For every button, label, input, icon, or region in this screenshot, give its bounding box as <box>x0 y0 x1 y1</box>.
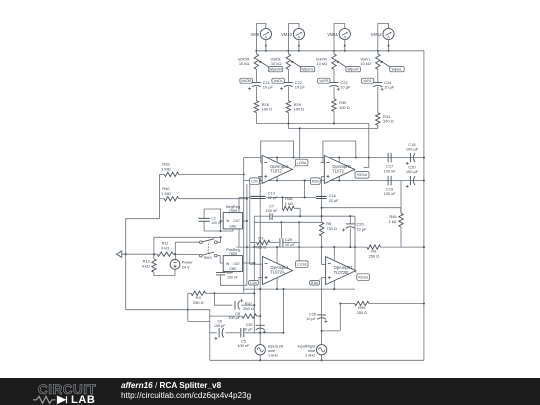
net flag L2In <box>250 178 260 184</box>
svg-text:R3: R3 <box>258 235 263 240</box>
wire L2 inverting input <box>261 161 262 163</box>
junction <box>423 246 425 248</box>
current arrow <box>298 44 301 47</box>
svg-text:C9: C9 <box>227 271 232 275</box>
net flag WiperR <box>346 67 361 72</box>
wire left feedback rail <box>243 158 245 293</box>
svg-text:C2: C2 <box>211 216 215 220</box>
wire V+ line row2 right <box>381 246 424 248</box>
source InputLeft <box>255 345 265 355</box>
junction <box>174 253 176 255</box>
current arrow <box>387 44 390 47</box>
net flag L1In <box>249 281 259 286</box>
wire R39-R40 link <box>158 174 160 198</box>
svg-text:100 µF: 100 µF <box>406 169 419 174</box>
net flag WipeOL <box>300 67 315 72</box>
wire R3-C29 <box>270 242 279 244</box>
svg-text:100 Ω: 100 Ω <box>262 107 273 112</box>
svg-text:A: A <box>387 35 390 40</box>
junction <box>253 262 255 264</box>
svg-text:OUT: OUT <box>233 219 240 223</box>
svg-text:780 Ω: 780 Ω <box>256 245 267 250</box>
potentiometer VolYR <box>332 54 336 69</box>
svg-text:7809: 7809 <box>229 251 238 256</box>
wire pot to cap C24 <box>377 69 379 82</box>
wire R30 down <box>333 111 335 123</box>
wire right net rail upper <box>321 176 323 222</box>
wire L1 non-inverting input <box>258 277 262 279</box>
net flag VolOL <box>272 78 285 83</box>
svg-text:10 kΩ: 10 kΩ <box>360 61 371 66</box>
junction <box>259 332 261 334</box>
wire VM12 to bus <box>388 40 390 51</box>
net flag L1Out <box>296 261 308 267</box>
svg-text:A: A <box>298 35 301 40</box>
wire lineA-lineB link <box>287 124 289 129</box>
junction <box>368 157 370 159</box>
wire R48 left lead <box>281 197 283 208</box>
wire R4 branch down <box>187 293 189 321</box>
switch SW1 <box>200 241 203 244</box>
junction <box>187 309 189 311</box>
net flag R2In <box>311 178 321 184</box>
net flag R1In <box>310 281 320 286</box>
svg-text:10 µF: 10 µF <box>340 85 351 90</box>
svg-text:C30: C30 <box>246 323 253 327</box>
wire R45 right <box>369 303 424 305</box>
svg-text:100 Ω: 100 Ω <box>383 119 394 124</box>
wire R11 to SW1 <box>173 253 199 255</box>
wire V+ line row2 <box>237 246 367 248</box>
junction <box>333 288 335 290</box>
wire PosReg GND stub <box>232 271 234 274</box>
wire right elbow rail <box>339 304 341 331</box>
svg-text:WipeOR: WipeOR <box>269 68 282 72</box>
svg-text:9 kΩ: 9 kΩ <box>142 263 150 268</box>
resistor R4 <box>191 291 206 295</box>
capacitor C26 <box>346 223 355 225</box>
wire mid rail <box>254 221 321 223</box>
svg-text:1 kHz: 1 kHz <box>305 352 315 357</box>
svg-text:22 pF: 22 pF <box>268 195 279 200</box>
op-amp U-L2 OpAmpL2 TL072 <box>262 155 292 183</box>
wire meter loop VM11 <box>334 24 345 55</box>
wire InputRight elbow <box>322 330 341 332</box>
wire C5 right <box>245 332 284 334</box>
wire cap to R31 <box>377 87 379 113</box>
wire R6 down <box>321 236 323 247</box>
wire lower link <box>188 320 210 322</box>
svg-text:10 µF: 10 µF <box>243 328 253 332</box>
svg-text:1 kHz: 1 kHz <box>268 352 278 357</box>
junction <box>276 157 278 159</box>
svg-text:A: A <box>343 35 346 40</box>
wiper arrow WipeOR <box>260 62 268 67</box>
svg-text:GND: GND <box>229 225 237 229</box>
svg-text:R1In: R1In <box>311 281 318 285</box>
junction <box>423 180 425 182</box>
svg-text:VM11: VM11 <box>327 32 338 37</box>
net flag WiperL <box>390 67 405 72</box>
junction <box>321 246 323 248</box>
current arrow <box>265 44 268 47</box>
wire L1 inverting rail <box>249 184 251 264</box>
capacitor C22 <box>284 82 293 84</box>
svg-text:L2Out: L2Out <box>297 161 306 165</box>
resistor R3 <box>257 240 270 244</box>
junction <box>246 198 248 200</box>
svg-text:TL072: TL072 <box>270 169 282 174</box>
junction <box>255 50 257 52</box>
svg-text:1 kΩ: 1 kΩ <box>388 219 396 224</box>
wire bottom bus <box>210 359 424 361</box>
source InputRight <box>316 345 326 355</box>
capacitor C30 <box>256 324 265 326</box>
wire L1 loop left <box>250 242 257 244</box>
svg-text:100 nF: 100 nF <box>384 191 397 196</box>
wire Power to SW1 <box>175 241 199 243</box>
svg-text:750 Ω: 750 Ω <box>326 226 337 231</box>
wire R39 left <box>159 173 164 175</box>
svg-text:100 µF: 100 µF <box>406 147 419 152</box>
net flag R2Out <box>355 172 369 179</box>
capacitor C7 <box>270 213 272 220</box>
wire left input rail <box>259 176 261 344</box>
junction <box>282 332 284 334</box>
resistor R6 <box>319 222 323 236</box>
resistor R28 <box>254 101 258 113</box>
junction <box>321 359 323 361</box>
svg-text:100 nF: 100 nF <box>227 275 238 279</box>
wiper arrow WiperL <box>382 62 390 67</box>
wire InputLeft <box>259 345 261 361</box>
wire VM10 to bus <box>298 40 300 51</box>
resistor R46 <box>399 213 403 227</box>
junction <box>321 207 323 209</box>
svg-text:100 nF: 100 nF <box>237 343 250 348</box>
wire meter loop VM9 <box>256 24 266 55</box>
wire R28 down <box>255 113 257 124</box>
wire Power bottom <box>174 269 176 275</box>
junction <box>287 50 289 52</box>
wire mid supply rail <box>246 184 248 285</box>
wire row1 V+ rail <box>244 157 424 159</box>
svg-text:VM10: VM10 <box>281 32 292 37</box>
wire R46 down <box>400 227 402 247</box>
wire right input rail <box>321 277 323 344</box>
svg-text:L1Out: L1Out <box>297 262 306 266</box>
junction <box>349 215 351 217</box>
svg-text:LAB: LAB <box>71 394 95 405</box>
junction <box>253 304 255 306</box>
junction <box>246 220 248 222</box>
wire to V- rail <box>304 181 306 198</box>
op-amp U-L1 OpAmpL1 TL072A <box>262 257 292 285</box>
svg-text:250 Ω: 250 Ω <box>243 306 254 311</box>
junction <box>281 196 283 198</box>
wire C5 to V- rail <box>283 289 285 333</box>
svg-text:SW1: SW1 <box>204 255 212 260</box>
junction <box>280 221 282 223</box>
resistor R6b <box>367 245 381 249</box>
capacitor C9 <box>216 273 225 275</box>
capacitor C23 <box>330 82 339 84</box>
wire R12 to SW1 line <box>154 236 221 238</box>
svg-text:A: A <box>265 35 268 40</box>
wire R1 non-inverting input <box>322 276 326 278</box>
wire ground to R11 <box>122 253 157 255</box>
junction <box>246 246 248 248</box>
junction <box>253 246 255 248</box>
junction <box>298 246 300 248</box>
junction <box>321 215 323 217</box>
svg-text:22 pF: 22 pF <box>329 198 340 203</box>
net flag VolYR <box>318 78 331 83</box>
svg-text:250 Ω: 250 Ω <box>193 300 204 305</box>
svg-text:R1Out: R1Out <box>358 275 368 279</box>
wire R45 left <box>340 303 354 305</box>
resistor R11 <box>157 252 173 256</box>
capacitor C8 <box>234 301 236 310</box>
svg-text:VolOR: VolOR <box>241 79 251 83</box>
resistor R30 <box>332 99 336 111</box>
wire row2 V- rail <box>244 288 355 290</box>
wire R2 inverting input <box>321 161 325 163</box>
wire line B to L2Out <box>299 128 301 159</box>
wire L2 feedback loop <box>261 141 294 162</box>
wire L1 V+ stub <box>276 247 278 263</box>
ground node triangle <box>116 251 121 257</box>
svg-text:VolYR: VolYR <box>319 79 329 83</box>
wire VM11 to bus <box>344 40 346 51</box>
capacitor C18 <box>409 153 411 162</box>
wire to ground rail <box>126 199 160 310</box>
wire L1 inverting input <box>250 263 263 265</box>
wire R40 left <box>159 198 164 200</box>
resistor R47 <box>242 314 257 318</box>
wire R2 non-inverting input <box>322 175 325 177</box>
wire pot to cap C22 <box>287 69 289 82</box>
net flag WipeOR <box>268 67 283 72</box>
junction <box>299 215 301 217</box>
svg-text:1 MΩ: 1 MΩ <box>161 191 170 196</box>
ammeter VM10 <box>293 28 304 39</box>
wire rail to R46 <box>322 208 401 214</box>
footer title text <box>121 381 251 400</box>
wire C6-C5 <box>225 332 240 334</box>
wire R12 top rail <box>153 237 155 259</box>
wire R12 bottom <box>154 272 175 275</box>
net flag VolOR <box>240 78 253 83</box>
svg-text:24 V: 24 V <box>182 265 190 270</box>
svg-text:10 kΩ: 10 kΩ <box>271 61 282 66</box>
wire left boundary rail <box>238 197 240 247</box>
wire top bus and right rail <box>256 51 424 361</box>
wire to C26 <box>349 216 351 223</box>
voltage source Power 24V <box>170 260 180 270</box>
svg-text:10 µF: 10 µF <box>384 85 395 90</box>
capacitor C20 <box>409 176 411 185</box>
wire PosReg OUT <box>243 262 255 264</box>
wire line B <box>288 127 377 129</box>
capacitor C5 <box>241 328 244 338</box>
svg-text:L2In: L2In <box>251 179 258 183</box>
wire R4 right <box>206 292 255 294</box>
wire InputRight <box>321 345 323 361</box>
junction <box>213 292 215 294</box>
junction <box>377 50 379 52</box>
junction <box>293 157 295 159</box>
net flag VolYL <box>361 78 374 83</box>
CircuitLab logo <box>26 379 136 405</box>
resistor R45 <box>355 301 369 305</box>
ammeter VM9 <box>260 28 271 39</box>
wire L1 V- stub <box>276 278 278 290</box>
junction <box>344 50 346 52</box>
junction <box>349 246 351 248</box>
svg-text:250 Ω: 250 Ω <box>369 253 380 258</box>
wiper arrow WiperR <box>338 62 346 67</box>
svg-text:100 µF: 100 µF <box>214 324 226 328</box>
wire R2 V+ stub <box>338 158 340 163</box>
resistor R29 <box>286 101 290 113</box>
wire line A to R2Out <box>256 124 368 168</box>
wire L2 V- stub <box>276 176 278 180</box>
capacitor C13 <box>251 196 266 198</box>
wire L2 non-inverting input <box>258 175 262 177</box>
junction <box>282 288 284 290</box>
junction <box>387 50 389 52</box>
svg-text:10 µF: 10 µF <box>306 317 316 321</box>
svg-text:WiperL: WiperL <box>392 68 403 72</box>
wire ground bottom rail <box>126 309 210 311</box>
wire C2 loop <box>204 209 220 231</box>
net flag L2Out <box>295 159 308 166</box>
wire pot to cap C21 <box>255 69 257 82</box>
junction <box>219 230 221 232</box>
wire bottom left vertical <box>209 310 211 361</box>
potentiometer VolOR <box>254 54 258 69</box>
wire to NegReg IN <box>221 220 224 222</box>
wire C29 right <box>283 242 299 244</box>
wire R1 inverting input <box>322 264 326 266</box>
svg-text:1 MΩ: 1 MΩ <box>161 166 170 171</box>
svg-text:7909: 7909 <box>229 208 238 213</box>
svg-text:VolOL: VolOL <box>273 79 282 83</box>
wire R1 V- stub <box>333 281 335 290</box>
op-amp U-R2 OpAmpR2 TL072 <box>324 155 354 183</box>
wire R4 left <box>188 292 191 294</box>
junction <box>243 173 245 175</box>
wire C13 to C16 <box>266 196 316 198</box>
svg-text:10 µF: 10 µF <box>357 226 368 231</box>
wire C6 left <box>210 332 217 334</box>
junction <box>298 50 300 52</box>
svg-text:VM9: VM9 <box>250 32 259 37</box>
net flag R1Out <box>357 274 370 281</box>
junction <box>125 253 127 255</box>
wire to R46 <box>400 181 402 214</box>
junction <box>219 220 221 222</box>
svg-text:WipeOL: WipeOL <box>301 68 313 72</box>
junction <box>276 180 278 182</box>
wire R1 feedback left <box>321 247 323 265</box>
svg-text:TL072B: TL072B <box>334 270 349 275</box>
junction <box>220 236 222 238</box>
junction <box>333 122 335 124</box>
capacitor C24 <box>373 82 382 84</box>
wire Power top <box>174 242 176 259</box>
junction <box>338 180 340 182</box>
junction <box>259 288 261 290</box>
junction <box>321 330 323 332</box>
wire C7 to R1 branch <box>272 215 355 217</box>
svg-text:C28: C28 <box>309 312 316 316</box>
junction <box>304 196 306 198</box>
junction <box>339 302 341 304</box>
junction <box>253 292 255 294</box>
wire C29 top lead <box>280 222 282 238</box>
wire C13 left <box>239 196 251 198</box>
svg-text:100 nF: 100 nF <box>384 168 397 173</box>
ammeter VM12 <box>383 28 394 39</box>
wire SW1 to PosReg IN <box>217 256 223 263</box>
svg-text:OUT: OUT <box>233 262 240 266</box>
junction <box>333 50 335 52</box>
wire R47 right <box>257 315 261 317</box>
wiper arrow WipeOL <box>292 62 300 67</box>
wire C2 loop bottom and NegReg GND <box>204 221 233 231</box>
svg-text:10 kΩ: 10 kΩ <box>316 61 327 66</box>
wire C26 down <box>349 228 351 247</box>
wire R47 left <box>210 315 242 317</box>
wire pot to cap C23 <box>333 69 335 82</box>
svg-text:100 Ω: 100 Ω <box>294 107 305 112</box>
current arrow <box>344 44 347 47</box>
potentiometer VolOL <box>286 54 290 69</box>
svg-text:10 µF: 10 µF <box>263 85 274 90</box>
wire R1 V+ stub <box>333 247 335 261</box>
junction <box>355 157 357 159</box>
svg-text:C6: C6 <box>217 320 222 324</box>
wire R39 to op-amps <box>179 173 244 175</box>
potentiometer VolYL <box>376 54 380 69</box>
wire L2 V+ stub <box>276 158 278 163</box>
junction <box>276 246 278 248</box>
wire R31 to line B <box>377 125 379 128</box>
junction <box>354 246 356 248</box>
svg-text:1 kΩ: 1 kΩ <box>285 201 293 206</box>
wire cap to R28 <box>255 87 257 101</box>
wire NegReg OUT <box>243 220 247 222</box>
op-amp U-R1 OpAmpR1 TL072B <box>326 257 356 285</box>
wire meter loop VM12 <box>378 24 389 55</box>
wire C9 link <box>225 271 233 273</box>
svg-text:TL072A: TL072A <box>270 270 285 275</box>
junction <box>299 127 301 129</box>
wire R1 feedback branch <box>354 216 356 271</box>
capacitor C19 <box>388 176 391 186</box>
junction <box>276 288 278 290</box>
junction <box>338 157 340 159</box>
wire SW1 upper right <box>217 237 220 242</box>
junction <box>259 359 261 361</box>
junction <box>287 122 289 124</box>
junction <box>423 157 425 159</box>
junction <box>153 253 155 255</box>
svg-text:R2In: R2In <box>312 179 319 183</box>
capacitor C29 <box>280 238 283 246</box>
